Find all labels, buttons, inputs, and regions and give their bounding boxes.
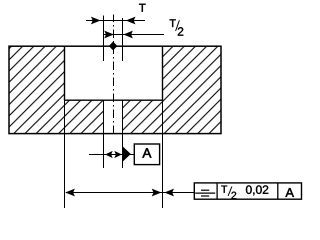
hatched left block: [9, 46, 65, 133]
slot right edge: [162, 46, 164, 100]
node: black diamond on centre of top face: [109, 42, 117, 50]
centerline: [113, 15, 115, 134]
bottom dimension line to frame: [66, 192, 195, 194]
symmetry symbol: [201, 189, 209, 191]
hatched bottom strip left of zone: [65, 100, 104, 134]
zone double arrow right (points right): [115, 152, 121, 158]
frame tolerance value: [246, 185, 252, 193]
dimension T/2 left arrow: [105, 31, 113, 37]
zone double arrow left (points left): [106, 152, 112, 158]
tolerance zone line C top: [122, 18, 124, 61]
tolerance zone line C bottom: [122, 100, 124, 168]
tolerance zone line A top: [103, 16, 105, 62]
feature control frame: [194, 183, 301, 199]
datum triangle on zone line: [123, 147, 131, 162]
datum box A: [134, 144, 159, 165]
dimension T right arrow: [127, 17, 135, 23]
slot left edge: [64, 46, 66, 100]
datum letter A: [142, 148, 151, 157]
bottom zone width leader line: [89, 154, 134, 156]
part outline: [9, 46, 221, 133]
frame leader arrow: [165, 189, 173, 195]
label T/2: [170, 19, 176, 27]
label T/2 sub2: [178, 27, 183, 35]
frame tol 2: [231, 192, 236, 199]
hatched right block: [163, 46, 222, 133]
dimension T/2 right arrow: [124, 31, 132, 37]
dimension T line: [86, 20, 145, 22]
extension line right (slot edge to bottom dim): [162, 100, 164, 208]
frame tol T: [221, 186, 227, 193]
slot bottom edge: [65, 99, 163, 101]
tolerance zone line A bottom: [103, 100, 105, 168]
dimension T left arrow: [92, 17, 100, 23]
extension line left (slot edge to bottom dim): [64, 100, 66, 208]
frame datum letter: [285, 188, 293, 197]
bottom dim right arrow: [153, 189, 161, 195]
dimension T/2 line: [104, 34, 165, 36]
hatched bottom strip right of zone: [123, 100, 163, 134]
bottom dim left arrow: [66, 189, 74, 195]
label T: [139, 4, 146, 12]
